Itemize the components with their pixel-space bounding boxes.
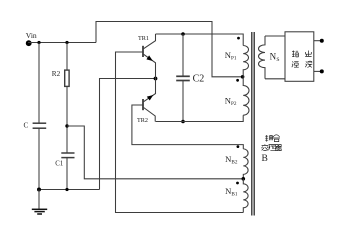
svg-text:B: B: [262, 154, 268, 164]
label he (coupling char 2): [273, 135, 280, 142]
ground: [32, 190, 47, 215]
label qi (transformer char 3): [275, 145, 282, 151]
polarity dot NP1: [237, 37, 240, 40]
wire feedback bias to NB windings junction: [67, 126, 243, 179]
transformer core: [252, 32, 254, 216]
winding NB2: [243, 149, 248, 179]
svg-text:Vin: Vin: [26, 31, 37, 40]
capacitor C: [33, 123, 47, 128]
wire emitter junction to ground vertical: [100, 79, 156, 190]
node ground rail left junction: [37, 188, 41, 192]
polarity dot NB2: [237, 145, 240, 148]
label C2: [193, 73, 205, 84]
svg-text:C: C: [24, 121, 29, 129]
label NS: [270, 51, 280, 62]
wire NS bottom to filter box: [265, 78, 285, 80]
wire C2 upper lead: [182, 34, 184, 76]
svg-text:P1: P1: [231, 55, 237, 61]
wire output terminal bottom: [314, 70, 321, 72]
label bian (transformer char 1): [262, 144, 269, 150]
node Vin terminal: [26, 40, 32, 46]
svg-text:B2: B2: [231, 160, 237, 166]
svg-text:P2: P2: [231, 101, 237, 107]
wire C1 to ground rail: [66, 158, 68, 190]
node emitter junction: [154, 77, 158, 81]
label chu (output filter char 2): [305, 51, 311, 57]
label NP1: [225, 50, 237, 62]
label ya (transformer char 2): [269, 145, 276, 151]
wire R2 branch upper: [66, 43, 68, 71]
svg-text:B1: B1: [231, 191, 237, 197]
wire NS top to filter box: [265, 35, 285, 37]
label NP2: [225, 95, 237, 107]
svg-text:S: S: [276, 57, 279, 63]
label TR2: [137, 117, 148, 124]
node NB2/NB1 junction: [242, 177, 246, 181]
label TR1: [138, 35, 149, 42]
wire C2 lower lead: [182, 81, 184, 122]
svg-text:R2: R2: [52, 70, 61, 78]
node primary center-tap junction: [241, 75, 245, 79]
svg-text:TR1: TR1: [138, 35, 149, 42]
node junction on Vin rail at R2 branch: [65, 41, 68, 44]
output filter box: [285, 32, 314, 82]
label lv (output filter char 3): [292, 61, 299, 67]
label B: [262, 154, 268, 164]
svg-text:TR2: TR2: [137, 117, 148, 124]
node C2 bottom junction: [181, 120, 185, 124]
svg-text:C2: C2: [193, 73, 205, 84]
label ou (coupling char 1): [265, 135, 272, 142]
wire TR2 collector to NP2 bottom: [156, 115, 244, 121]
node C2 top junction: [181, 32, 185, 36]
transistor TR2: [143, 79, 156, 122]
wire C branch lower: [38, 128, 40, 189]
winding NS secondary: [259, 36, 265, 79]
node junction on Vin rail at C branch: [37, 41, 40, 44]
wire TR1 collector rail to NP1 top: [156, 34, 244, 46]
node output terminal top: [320, 39, 324, 43]
winding NP2: [243, 77, 249, 115]
wire TR2 base to NB2 top: [132, 105, 243, 149]
winding NP1: [243, 46, 248, 77]
wire top rail to primary center tap: [96, 22, 243, 77]
label C: [24, 121, 29, 129]
node ground rail C1 junction: [65, 188, 68, 191]
winding NB1: [243, 179, 248, 213]
label R2: [52, 70, 61, 78]
label shu (output filter char 1): [292, 51, 298, 57]
wire ground rail: [39, 189, 100, 191]
svg-text:C1: C1: [55, 160, 63, 167]
label NB2: [225, 154, 238, 166]
label Vin: [26, 31, 37, 40]
label C1: [55, 160, 63, 167]
polarity dot NB1: [236, 182, 239, 185]
wire output terminal top: [314, 40, 321, 42]
label bo (output filter char 4): [305, 61, 312, 68]
capacitor C2: [176, 76, 190, 80]
wire TR1 base to NB1 bottom loop: [116, 52, 244, 213]
node output terminal bottom: [320, 69, 324, 73]
capacitor C1: [61, 153, 74, 158]
wire C branch upper: [38, 43, 40, 123]
label NB1: [225, 186, 238, 198]
wire R2 to C1: [66, 86, 68, 152]
node junction R2/C1/feedback: [65, 124, 68, 127]
wire Vin rail: [28, 42, 96, 44]
resistor R2: [65, 70, 69, 86]
transistor TR1: [143, 34, 156, 79]
polarity dot NP2: [236, 79, 239, 82]
